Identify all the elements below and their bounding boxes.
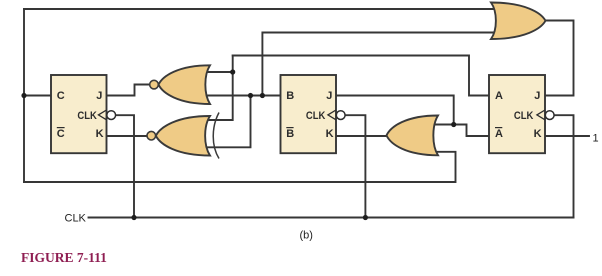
clock wedge FF1	[98, 110, 106, 120]
caption FIGURE 7-111	[21, 250, 107, 266]
svg-text:B: B	[286, 128, 294, 140]
xnor-gate U2 extra arc	[213, 113, 219, 159]
wire OR4 output to J of FF3	[544, 21, 574, 96]
node junction B net right	[260, 93, 265, 98]
svg-text:B: B	[286, 90, 294, 102]
wire left vertical C net	[23, 9, 25, 182]
wire K of FF3 to constant 1	[545, 135, 589, 137]
clock bubble FF2	[336, 111, 345, 120]
svg-text:J: J	[534, 90, 540, 102]
overline Bbar	[286, 127, 293, 129]
svg-text:J: J	[326, 90, 332, 102]
wire NOR1 output to J of FF1	[107, 85, 150, 96]
overline Abar	[495, 127, 502, 129]
svg-text:CLK: CLK	[65, 213, 87, 225]
wire FF1 CLK to clock line	[116, 115, 135, 217]
wire bottom loop C net	[24, 152, 456, 182]
xnor-gate U2 left pointing body	[156, 116, 210, 156]
svg-text:(b): (b)	[300, 230, 313, 242]
wire NOR1 top input	[206, 71, 233, 73]
wire OR3 output to K of FF2	[336, 135, 388, 137]
wire B net to XNOR2 lower input	[206, 96, 251, 148]
node junction C output	[21, 93, 26, 98]
wire OR3 top input Abar net	[430, 125, 489, 137]
svg-text:A: A	[495, 90, 503, 102]
wire J of FF2 from Abar net	[336, 96, 454, 125]
node junction clock line FF1	[131, 215, 136, 220]
svg-text:C: C	[57, 128, 65, 140]
or-gate U4 top right pointing	[491, 3, 546, 40]
wire B output row	[206, 95, 281, 97]
bubble XNOR2 output	[147, 131, 156, 140]
clock wedge FF2	[328, 110, 336, 120]
wire FF3 CLK to clock line	[554, 115, 574, 217]
wire B net to OR4 lower input	[262, 33, 496, 96]
wire A net vertical to gates	[206, 56, 233, 121]
svg-text:1: 1	[593, 133, 599, 145]
svg-text:K: K	[326, 128, 334, 140]
flip-flop FF2 (B) box	[281, 75, 337, 153]
wire top line C to OR4 top input	[24, 8, 496, 10]
node junction clock line FF2	[363, 215, 368, 220]
node junction Abar net	[451, 122, 456, 127]
bubble NOR1 output	[150, 80, 159, 89]
overline Cbar	[57, 127, 65, 129]
wire A net long line	[233, 56, 489, 96]
svg-text:CLK: CLK	[514, 110, 534, 122]
svg-text:A: A	[495, 128, 503, 140]
clock wedge FF3	[537, 110, 545, 120]
svg-text:CLK: CLK	[77, 110, 97, 122]
node junction NOR1 top input A net	[230, 69, 235, 74]
wire C output row	[24, 95, 51, 97]
nor-gate U1 left pointing	[159, 65, 211, 104]
svg-text:K: K	[534, 128, 542, 140]
clock bubble FF1	[107, 111, 116, 120]
or-gate U3 left pointing	[387, 116, 439, 156]
wire FF2 CLK to clock line	[345, 115, 365, 217]
svg-text:K: K	[96, 128, 104, 140]
clock bubble FF3	[545, 111, 554, 120]
svg-text:J: J	[96, 90, 102, 102]
flip-flop FF1 (C) box	[51, 75, 107, 153]
svg-text:C: C	[57, 90, 65, 102]
wire CLK bottom line	[89, 217, 574, 219]
svg-text:CLK: CLK	[306, 110, 326, 122]
flip-flop FF3 (A) box	[489, 75, 545, 153]
node junction B net left	[248, 93, 253, 98]
wire XNOR2 output to K of FF1	[107, 135, 147, 137]
